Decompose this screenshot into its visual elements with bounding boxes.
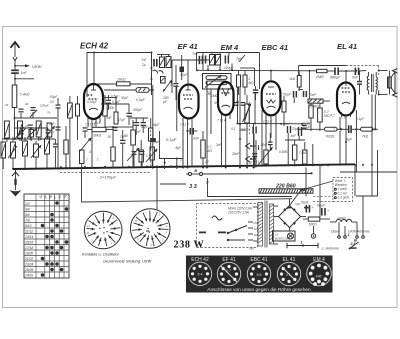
svg-text:5/6: 5/6 [25, 213, 30, 217]
svg-text:47µF: 47µF [180, 73, 188, 77]
bus junction dots [60, 164, 373, 168]
tube label EM 4 [221, 43, 240, 52]
resistor 7,4kO [12, 85, 29, 108]
rotary caption line1 [82, 252, 120, 257]
choke coil [330, 216, 357, 222]
svg-text:7kΩ: 7kΩ [362, 135, 369, 139]
resistor 2MO [315, 69, 327, 79]
volume pot EBC [258, 138, 273, 167]
svg-text:5nF: 5nF [352, 76, 359, 80]
svg-text:7µ: 7µ [51, 130, 55, 134]
werk info dashed box [301, 178, 353, 202]
EL41 top rail 2 [308, 70, 379, 100]
svg-text:0,1µF: 0,1µF [356, 117, 365, 121]
svg-text:15: 15 [180, 158, 184, 162]
svg-text:105µF: 105µF [40, 104, 49, 108]
svg-text:Anschlüsse von unten gegen die: Anschlüsse von unten gegen die Röhre ges… [207, 287, 311, 293]
svg-text:13/14: 13/14 [25, 235, 33, 239]
labels 3 3 [160, 180, 209, 190]
wire bus to psu right [310, 164, 321, 217]
svg-text:9/10: 9/10 [25, 224, 32, 228]
svg-text:238 W: 238 W [174, 239, 205, 250]
loudspeaker [378, 69, 398, 98]
svg-text:16: 16 [5, 103, 9, 107]
svg-text:240: 240 [248, 247, 254, 251]
svg-text:10kΩ: 10kΩ [117, 78, 126, 82]
power transformer [253, 201, 278, 248]
cap 70nF grid EL [299, 90, 317, 97]
svg-text:Dipol: Dipol [331, 230, 339, 234]
svg-text:1nF: 1nF [21, 71, 28, 75]
svg-text:7/8: 7/8 [25, 219, 30, 223]
capacitor near tube base [83, 127, 88, 138]
rotary caption line2 [103, 259, 152, 264]
table row labels [24, 202, 33, 278]
electrolytic 50uF a [301, 201, 314, 213]
svg-text:7,5kΩ: 7,5kΩ [299, 151, 308, 155]
svg-text:EL 41: EL 41 [337, 42, 357, 51]
resistor 1kO EBC vertical [289, 71, 301, 91]
cap 1nF near pot [247, 153, 257, 168]
value labels layer [89, 73, 365, 164]
svg-text:0,7µF: 0,7µF [303, 121, 312, 125]
EF41 pin wires [182, 123, 192, 169]
vertical x157 down [156, 168, 158, 211]
svg-text:50µF: 50µF [50, 95, 58, 99]
svg-text:50µF: 50µF [317, 204, 326, 208]
svg-text:30kΩ: 30kΩ [93, 134, 101, 138]
right verticals [340, 150, 397, 226]
svg-text:4,7: 4,7 [330, 114, 335, 118]
tube EL41 [330, 82, 355, 120]
resistor 500 ohm [303, 217, 330, 227]
ballast hatched strip [259, 189, 313, 193]
switch chevrons EBC [246, 140, 257, 168]
svg-text:7,4kΩ: 7,4kΩ [20, 93, 30, 97]
wires ECH42 pins down [88, 123, 96, 169]
mixer grid extra components [86, 96, 160, 168]
svg-text:0,1µF: 0,1µF [112, 100, 121, 104]
input tuning upper row [15, 124, 55, 141]
svg-text:50kΩ: 50kΩ [241, 128, 249, 132]
svg-text:0,1: 0,1 [231, 127, 236, 131]
svg-text:10: 10 [170, 83, 174, 87]
socket label EF41 [222, 257, 236, 263]
tilde mains [212, 216, 222, 220]
svg-text:2MΩ: 2MΩ [315, 75, 324, 79]
svg-text:2,4: 2,4 [350, 242, 356, 246]
svg-text:MΩ: MΩ [249, 81, 255, 85]
svg-text:21/22: 21/22 [24, 257, 33, 261]
model number 238 W [174, 239, 205, 250]
svg-text:19/20: 19/20 [25, 252, 33, 256]
AF switch cluster extras [250, 133, 273, 160]
svg-text:FAT: FAT [316, 275, 322, 279]
tube label EL 41 [337, 42, 357, 51]
cap 70uF feedback [292, 125, 325, 131]
svg-text:7b: 7b [47, 111, 51, 115]
svg-text:7µF: 7µF [295, 202, 300, 206]
svg-text:15/16: 15/16 [25, 241, 33, 245]
resistor 10kO [94, 74, 154, 102]
tube label ECH 42 [80, 42, 109, 51]
EM4 grid box with 1MO [203, 74, 232, 135]
bridge rectifier [274, 199, 306, 231]
svg-text:50pF: 50pF [153, 140, 161, 144]
svg-text:0,02µF: 0,02µF [87, 100, 98, 104]
socket ECH42 [188, 262, 211, 285]
svg-text:68pF: 68pF [141, 125, 149, 129]
wire antenna down [5, 74, 57, 128]
resistor 1MO right of EM4 [243, 95, 252, 169]
electrolytic 50uF b [317, 204, 329, 216]
EF41 top cap 7nF [172, 52, 210, 93]
rotary switch 2 [130, 209, 170, 249]
tone caps bottom EL [303, 142, 313, 166]
svg-text:10: 10 [25, 124, 29, 128]
svg-text:2 1: 2 1 [286, 273, 291, 277]
svg-text:47µF: 47µF [118, 118, 126, 122]
svg-text:17/18: 17/18 [25, 246, 33, 250]
EM4 B+ row [196, 64, 317, 72]
svg-text:1: 1 [348, 233, 350, 237]
terminal dashes PSU [287, 202, 309, 208]
svg-text:EBC 41: EBC 41 [262, 43, 289, 52]
socket label EM4 [313, 257, 325, 263]
dashed 2x100uF [60, 173, 150, 180]
svg-text:20: 20 [49, 100, 54, 104]
tube EF41 [179, 84, 199, 127]
svg-text:7: 7 [333, 128, 335, 132]
svg-text:500Ω: 500Ω [309, 223, 318, 227]
main chassis bus [13, 164, 355, 169]
EL41 top rail 1 [299, 66, 379, 76]
resistor 30k vertical right of tube [103, 95, 114, 127]
socket EBC41 [247, 262, 270, 285]
svg-text:1/2: 1/2 [25, 202, 30, 206]
svg-text:50µF: 50µF [121, 96, 129, 100]
svg-text:ECH 42: ECH 42 [80, 42, 109, 51]
resistor 30kO horizontal [87, 127, 113, 137]
svg-text:1 11: 1 11 [341, 116, 347, 120]
svg-text:10nF: 10nF [261, 143, 269, 147]
table header marks [39, 193, 69, 199]
caps left column [49, 98, 68, 169]
svg-text:MΩ: MΩ [324, 114, 330, 118]
svg-text:1,4 grün: 1,4 grün [338, 196, 350, 200]
svg-text:0,1µF: 0,1µF [166, 137, 177, 142]
resistor 7,5kO vertical [285, 140, 308, 167]
svg-text:0 7: 0 7 [226, 269, 231, 273]
svg-text:23/24: 23/24 [24, 263, 33, 267]
svg-text:1: 1 [301, 241, 303, 245]
EBC41 pin wires [261, 110, 276, 167]
svg-text:0,5MΩ: 0,5MΩ [279, 150, 289, 154]
rotary switch 1 [84, 211, 122, 249]
svg-text:2µ: 2µ [141, 63, 146, 67]
svg-text:8µF: 8µF [346, 138, 353, 142]
svg-text:7: 7 [86, 158, 88, 162]
svg-text:25/26: 25/26 [24, 268, 33, 272]
svg-text:7kΩΩ: 7kΩΩ [326, 135, 335, 139]
tube label EBC 41 [262, 43, 289, 52]
svg-text:7: 7 [97, 158, 99, 162]
mid caps row under ECH42 right [101, 95, 143, 125]
svg-text:1 5: 1 5 [146, 154, 151, 158]
grid coil left of ECH42 [50, 95, 80, 169]
label 220 B60 [275, 184, 296, 190]
line y202 [82, 199, 293, 202]
tube socket panel [186, 256, 333, 293]
tube label EF 41 [178, 42, 198, 51]
svg-text:+: + [327, 209, 329, 213]
svg-text:3/4: 3/4 [25, 208, 30, 212]
svg-text:EF 41: EF 41 [178, 42, 198, 51]
antenna [11, 42, 20, 70]
resistor 500kO horizontal [308, 99, 330, 109]
svg-text:+: + [312, 206, 314, 210]
svg-text:24/2x: 24/2x [24, 274, 33, 278]
svg-text:6 8: 6 8 [257, 273, 262, 277]
vertical bus end down [354, 164, 356, 196]
IF can 2 [237, 87, 311, 169]
svg-text:880µF: 880µF [330, 76, 341, 80]
capacitor 1nF antenna [11, 70, 27, 76]
box 2x B250C100 [273, 231, 296, 241]
svg-text:2×100µF: 2×100µF [99, 175, 117, 180]
anode resistors right of EM4 [234, 71, 254, 106]
EBC41 top wiring [270, 71, 272, 81]
input coil row [1, 128, 58, 170]
resistor 0,7MO vertical [201, 131, 213, 169]
svg-text:11/12: 11/12 [25, 230, 33, 234]
svg-text:400µF: 400µF [133, 108, 143, 112]
svg-text:110/125V 1,5A: 110/125V 1,5A [228, 211, 249, 215]
EM4 pin wires [206, 81, 241, 169]
svg-text:30k: 30k [109, 106, 115, 110]
svg-text:10,4: 10,4 [94, 121, 100, 125]
feedback row resistor 2 [361, 95, 379, 139]
svg-text:3 3: 3 3 [189, 184, 198, 190]
svg-text:50µF: 50µF [301, 201, 310, 205]
antenna terminals labels [311, 222, 369, 251]
svg-text:20nF: 20nF [231, 152, 240, 156]
svg-text:50µF: 50µF [283, 93, 292, 97]
svg-text:0,5µF: 0,5µF [136, 98, 146, 102]
svg-text:UKW-Antenne: UKW-Antenne [348, 230, 370, 234]
tube ECH42 [84, 84, 117, 127]
line y196 [208, 178, 293, 197]
mains switch [199, 226, 247, 242]
svg-text:4: 4 [89, 150, 91, 154]
svg-text:70nF: 70nF [309, 93, 318, 97]
EL41 long verticals [339, 95, 372, 173]
switch o-o B [186, 169, 312, 176]
cap 8uF feedback [346, 125, 361, 141]
vertical to line y202 [81, 168, 83, 203]
oscillator coil assembly [141, 52, 184, 101]
svg-text:3nF: 3nF [193, 137, 200, 141]
cap 50uF EBC [283, 91, 297, 103]
svg-text:5 4: 5 4 [198, 273, 203, 277]
svg-text:(µ: (µ [206, 180, 209, 184]
tube EM4 [217, 82, 234, 123]
ECH42 stage box [87, 52, 152, 98]
svg-text:z. Antenne: z. Antenne [321, 247, 339, 251]
cap 5nF EL [352, 68, 359, 80]
socket label ECH42 [191, 257, 209, 263]
output transformer coupling cap [357, 71, 362, 95]
socket EL41 [277, 262, 300, 285]
svg-text:0,5µF: 0,5µF [111, 95, 120, 99]
voltage selector pointer [287, 188, 303, 209]
cap 880pF [330, 68, 341, 80]
socket EF41 [217, 262, 240, 285]
panel caption [207, 287, 311, 293]
svg-text:1 11: 1 11 [253, 160, 259, 164]
EL41 pin wires [340, 110, 357, 172]
ground left [10, 169, 22, 197]
anode resistor 50k EBC [282, 96, 286, 126]
transformer taps [248, 221, 259, 251]
vertical x306 [305, 168, 307, 197]
output transformer [367, 72, 377, 95]
EM4 top components [197, 53, 260, 90]
svg-text:30: 30 [25, 102, 29, 106]
psu dashed box [197, 204, 258, 248]
UKW arrow [15, 64, 43, 69]
marks above bar [287, 241, 357, 249]
tube EBC41 [262, 81, 281, 123]
socket EM4 [307, 261, 332, 286]
trimmer + pot under ECH42 [80, 138, 92, 169]
svg-text:UKW: UKW [32, 64, 43, 69]
svg-text:25: 25 [204, 160, 209, 164]
feedback row resistor 1 [325, 127, 348, 138]
svg-text:Kontakte u. Oszillator: Kontakte u. Oszillator [82, 252, 120, 257]
pots caps cluster mid [105, 120, 143, 169]
svg-text:Gezeichnete Stellung: UKW: Gezeichnete Stellung: UKW [103, 259, 152, 264]
resistor left EL vertical [309, 103, 313, 131]
svg-text:1 11 8: 1 11 8 [263, 120, 272, 124]
svg-text:EM 4: EM 4 [221, 43, 240, 52]
motor text [228, 207, 252, 215]
dashed leads werk box [313, 196, 333, 201]
caps row under EBC41 [239, 122, 313, 168]
cap 3nF under EF41 [186, 128, 200, 141]
table dots [41, 201, 69, 277]
switch table [24, 194, 69, 278]
svg-text:30: 30 [108, 135, 112, 139]
socket label EBC41 [250, 257, 267, 263]
svg-text:20nF: 20nF [282, 122, 291, 126]
svg-text:10000: 10000 [337, 216, 346, 220]
resistor 0,7MO EL vertical [318, 103, 330, 131]
svg-text:1kΩ: 1kΩ [289, 77, 296, 81]
mixer coil row mid [5, 121, 56, 142]
IF can 1 / EF41 input network [150, 85, 183, 169]
socket label EL41 [283, 257, 296, 263]
grid cap EBC41 [253, 86, 258, 100]
